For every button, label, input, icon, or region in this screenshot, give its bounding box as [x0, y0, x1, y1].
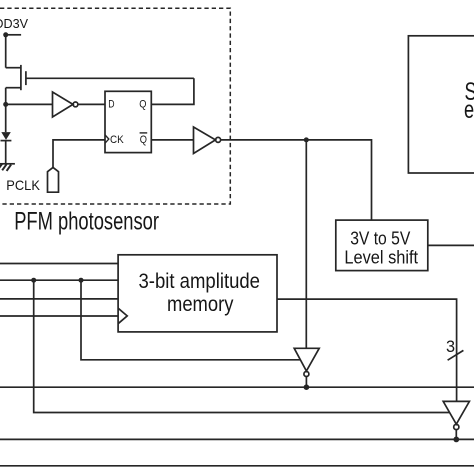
inverter U3 triangle [194, 127, 216, 154]
transistor M1 source lead [6, 67, 21, 69]
wire VDD stub [6, 34, 21, 36]
transistor M1 drain lead [6, 87, 21, 89]
svg-text:PFM photosensor: PFM photosensor [14, 208, 159, 236]
bus width slash [448, 350, 464, 360]
wire memory input line B [0, 279, 118, 281]
node sensor output junction dot [304, 137, 309, 142]
flip-flop clock edge triangle [105, 135, 109, 143]
wire Qbar output to inverter U3 [151, 139, 193, 141]
wire enable for driver U4 [81, 280, 300, 360]
flip-flop U2 body [105, 91, 151, 152]
transistor M1 gate plate [25, 71, 27, 85]
wire U3 output to level shifter [221, 140, 372, 220]
transistor M1 channel bar [20, 65, 22, 90]
node enable tap dot 1 [31, 278, 36, 283]
wire inverter U1 output to FF D input [78, 103, 105, 105]
inverter U1 triangle [53, 92, 74, 117]
photodiode D1 cathode bar [1, 140, 12, 142]
wire gate lead to Q feedback [26, 77, 194, 79]
wire PCLK to CK input [53, 140, 105, 168]
svg-text:3V to 5V: 3V to 5V [350, 227, 411, 248]
node photodiode junction dot [3, 102, 8, 107]
svg-text:Level shift: Level shift [344, 247, 418, 268]
wire drain down to photodiode node [5, 88, 7, 105]
svg-text:Q: Q [139, 98, 146, 110]
inverter U3 bubble [216, 137, 221, 142]
node enable tap dot 2 [79, 278, 84, 283]
svg-text:3: 3 [446, 338, 455, 356]
node U4 output dot [304, 384, 310, 390]
svg-text:VDD3V: VDD3V [0, 17, 29, 31]
wire photodiode to ground [5, 141, 7, 164]
port PCLK pin symbol [48, 167, 59, 192]
svg-text:electronics: electronics [464, 96, 474, 124]
wire memory input line A [0, 263, 118, 265]
wire bus line 2 [0, 438, 474, 440]
wire memory input line C [0, 298, 118, 300]
driver U5 bubble [454, 424, 459, 429]
wire Q output feedback [151, 78, 194, 104]
wire memory output bus [277, 299, 457, 401]
wire memory clock line D [0, 315, 118, 317]
svg-text:PCLK: PCLK [6, 177, 40, 193]
svg-text:3-bit amplitude: 3-bit amplitude [139, 270, 261, 293]
node VDD junction dot [3, 32, 8, 37]
wire VDD down to transistor source [5, 35, 7, 68]
block scanning electronics box [408, 36, 474, 173]
wire bottom line [0, 465, 474, 467]
driver U4 bubble [304, 372, 309, 377]
svg-text:memory: memory [167, 293, 234, 316]
tri-state driver U4 triangle [294, 348, 319, 371]
wire sensor output down to tri-state driver U4 [305, 140, 307, 348]
photodiode D1 triangle [1, 132, 11, 140]
memory clock edge triangle [118, 308, 127, 324]
block 3-bit amplitude memory box [118, 255, 277, 332]
wire U4 bubble to bus [305, 377, 307, 388]
wire enable for driver U5 [34, 280, 450, 412]
wire bus line 1 [0, 386, 474, 388]
tri-state driver U5 triangle [443, 401, 469, 424]
svg-text:D: D [108, 98, 114, 110]
svg-text:CK: CK [110, 134, 124, 146]
dashed box PFM photosensor boundary [0, 8, 230, 204]
node U5 output dot [453, 437, 459, 443]
wire U5 bubble to bus [455, 430, 457, 440]
ground symbol [0, 164, 15, 171]
block 3V to 5V level shift box [336, 220, 428, 271]
svg-text:Q: Q [140, 134, 147, 146]
inverter U1 bubble [73, 102, 78, 107]
Qbar overline [140, 132, 148, 134]
wire node to inverter input [6, 103, 53, 105]
wire node down to photodiode [5, 104, 7, 132]
wire level shift output to right [428, 244, 474, 246]
